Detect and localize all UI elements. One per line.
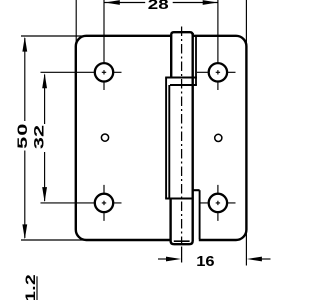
screw hole bottom-right	[209, 194, 227, 212]
arrow 50 bottom	[22, 224, 27, 239]
crosshair top-left hole	[41, 0, 122, 90]
arrow 28 right	[203, 0, 218, 5]
dimension line 1.2 (bottom left, cropped)	[36, 276, 38, 300]
dimension line 50 (left)	[24, 38, 26, 238]
crosshair top-right hole	[197, 0, 236, 90]
screw hole top-right	[209, 63, 227, 81]
hinge leaf outline right part	[193, 36, 247, 240]
knuckle centerline (dash-dot)	[181, 27, 183, 246]
knuckle lower-right curl line	[199, 190, 201, 239]
dimension line 32 (left inner)	[44, 75, 46, 202]
svg-text:32: 32	[30, 125, 46, 149]
knuckle upper step line 1	[165, 76, 197, 78]
dimension 16 left stub and arrow	[158, 258, 168, 260]
arrow 50 top	[22, 37, 27, 52]
svg-text:50: 50	[14, 123, 30, 149]
arrow 32 top	[42, 73, 47, 88]
svg-text:28: 28	[148, 0, 169, 13]
small hole right	[215, 134, 222, 141]
knuckle middle outer-left line	[165, 78, 167, 199]
extension line plate right edge (bottom, for dim 16)	[245, 231, 247, 266]
knuckle upper-right curl line	[195, 36, 197, 85]
extension line plate right edge (top, cropped dim)	[245, 0, 247, 46]
svg-text:1.2: 1.2	[22, 274, 38, 300]
knuckle middle inner-left line	[168, 85, 170, 199]
knuckle bottom cap inner line	[174, 240, 190, 242]
knuckle upper step line 2	[170, 84, 197, 86]
dimension line 28 (top)	[105, 2, 219, 4]
extension line plate top edge (left, for dim 50)	[21, 35, 86, 37]
knuckle top cap and upper-left edge	[171, 32, 192, 77]
knuckle right edge (full length)	[191, 33, 193, 241]
svg-text:16: 16	[196, 254, 215, 270]
hinge leaf outline left part	[76, 36, 171, 240]
screw hole top-left	[95, 63, 113, 81]
crosshair bottom-left hole	[41, 185, 122, 221]
knuckle lower step line	[165, 197, 193, 199]
extension line plate bottom edge (left, for dim 50)	[21, 239, 86, 241]
arrow 32 bottom	[42, 187, 47, 202]
dimension 16 right stub and arrow	[261, 258, 271, 260]
arrow 28 left	[105, 0, 120, 5]
knuckle bottom cap	[171, 199, 193, 245]
knuckle lower step short line	[193, 189, 200, 191]
screw hole bottom-left	[95, 194, 113, 212]
crosshair bottom-right hole	[200, 185, 236, 221]
small hole left	[101, 134, 108, 141]
extension line plate left edge (top, cropped dim)	[75, 0, 77, 46]
